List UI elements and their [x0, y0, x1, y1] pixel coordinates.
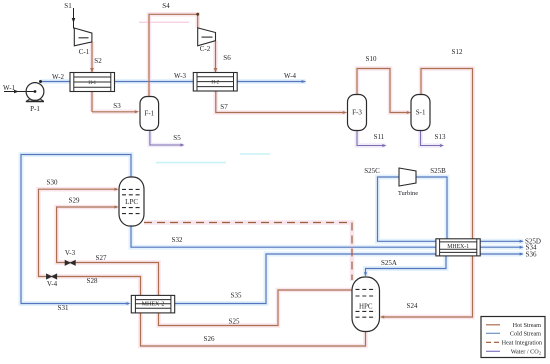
svg-text:S31: S31: [58, 304, 69, 312]
compressor C-2: [198, 28, 216, 46]
svg-text:S28: S28: [87, 277, 98, 285]
arrow W-4 right: [302, 80, 306, 83]
wire purple S11: [357, 131, 385, 146]
svg-text:S6: S6: [223, 54, 231, 62]
separator S-1: [411, 95, 430, 131]
legend water swatch: [486, 350, 500, 352]
svg-text:V-3: V-3: [65, 249, 76, 257]
arrow S29 into LPC: [114, 206, 118, 209]
svg-text:MHEX-2: MHEX-2: [142, 302, 165, 308]
svg-text:C-2: C-2: [200, 45, 211, 53]
arrow S3 into F-1: [135, 110, 139, 113]
heat exchanger H-1: [70, 73, 115, 92]
arrow S24 into HPC: [380, 316, 384, 319]
arrow S7 into F-3: [343, 111, 347, 114]
legend hot stream swatch: [486, 324, 500, 326]
wire hot: S2 S3: [92, 42, 137, 112]
svg-text:S-1: S-1: [416, 109, 426, 117]
wire hot: S6 S7: [216, 41, 346, 113]
wire cold: LPC top to S31 into MHEX-2: [21, 155, 131, 304]
wire halo S25D S34 S36: [480, 241, 523, 254]
wire S1 feed (black): [73, 8, 75, 29]
wire halo S10: [357, 69, 410, 113]
heat exchanger H-2: [193, 73, 237, 92]
wire halo S35: [175, 254, 436, 304]
svg-text:W-4: W-4: [284, 72, 297, 80]
svg-text:Water / CO2: Water / CO2: [511, 349, 541, 356]
svg-text:V-4: V-4: [47, 280, 58, 288]
svg-text:Heat Integration: Heat Integration: [502, 340, 542, 347]
arrow S2 into H-1: [90, 68, 94, 73]
svg-text:P-1: P-1: [30, 105, 40, 113]
svg-text:S10: S10: [366, 55, 377, 63]
wire halo LPC-bottom to MHEX-1: [131, 226, 436, 247]
svg-text:W-1: W-1: [3, 84, 16, 92]
wire cold: S25D S34 S36 outlets: [480, 241, 523, 254]
svg-text:S36: S36: [526, 250, 537, 258]
arrow S5: [180, 144, 184, 147]
arrow S30 into LPC: [114, 188, 118, 191]
svg-text:S35: S35: [231, 292, 242, 300]
svg-text:S25C: S25C: [364, 167, 380, 175]
wire cold: LPC bottom to MHEX-1: [131, 226, 436, 247]
arrow S1 down: [72, 18, 76, 23]
svg-text:S24: S24: [407, 302, 418, 310]
svg-text:S25: S25: [229, 318, 240, 326]
svg-text:S26: S26: [204, 335, 215, 343]
svg-text:Hot Stream: Hot Stream: [513, 322, 542, 329]
arrow S25A down into HPC: [364, 272, 367, 276]
legend heat integration swatch: [486, 341, 500, 343]
flash drum F-1: [140, 97, 159, 131]
legend cold stream swatch: [486, 332, 500, 334]
wire halo W line: [41, 79, 306, 84]
wire halo S12 S24: [381, 69, 473, 318]
wire heat integration S32 dashed: [144, 223, 352, 281]
svg-text:S5: S5: [173, 134, 181, 142]
arrow S13: [440, 144, 444, 147]
wire halo S25 S27 S29: [57, 207, 352, 326]
wire halo S2 S3: [92, 42, 138, 112]
svg-text:W-3: W-3: [174, 72, 187, 80]
svg-text:C-1: C-1: [79, 48, 90, 56]
arrow S34: [520, 246, 524, 249]
pump P-1: [26, 80, 44, 101]
arrow S36: [520, 253, 524, 256]
svg-text:S3: S3: [113, 102, 121, 110]
wire cold: S25C turbine S25B: [378, 177, 448, 245]
compressor C-1: [74, 28, 92, 46]
svg-text:S11: S11: [374, 133, 385, 141]
wire halo LPC-top loop / S31: [21, 155, 131, 304]
svg-text:S13: S13: [435, 133, 446, 141]
heat exchanger MHEX-1: [436, 239, 480, 256]
svg-text:F-3: F-3: [352, 109, 362, 117]
wire hot: HPC bottom S26 to MHEX-2 to V-4 S30 LPC: [39, 189, 366, 346]
svg-text:H-2: H-2: [211, 81, 219, 86]
svg-text:Turbine: Turbine: [398, 190, 418, 197]
wire hot: S4: [149, 14, 198, 96]
svg-text:S27: S27: [96, 254, 107, 262]
valve V-3: [65, 260, 75, 265]
svg-text:HPC: HPC: [359, 303, 373, 311]
heat exchanger MHEX-2: [131, 295, 174, 313]
svg-text:S1: S1: [64, 2, 72, 10]
svg-text:F-1: F-1: [144, 110, 154, 118]
artifact pink segment: [139, 21, 189, 23]
svg-text:S30: S30: [47, 179, 58, 187]
legend box: [481, 317, 545, 358]
wire hot: S10: [357, 69, 409, 113]
column HPC: [352, 277, 380, 332]
wire halo S26 S28 S30: [39, 189, 366, 346]
artifact cyan segment A: [156, 162, 226, 164]
svg-text:S2: S2: [94, 57, 102, 65]
svg-text:W-2: W-2: [52, 73, 65, 81]
flash drum F-3: [348, 95, 367, 131]
wire purple S5: [150, 130, 183, 145]
node S4 corner junction: [196, 13, 199, 16]
svg-text:S32: S32: [172, 236, 183, 244]
svg-text:S25A: S25A: [381, 259, 397, 267]
svg-text:MHEX-1: MHEX-1: [447, 244, 469, 250]
svg-text:S25B: S25B: [430, 167, 446, 175]
svg-text:S12: S12: [452, 48, 463, 56]
artifact cyan segment B: [240, 153, 270, 155]
wire halo S5 S11 S13: [150, 130, 443, 145]
arrow S25D: [520, 240, 524, 243]
wire halo S32: [144, 223, 352, 282]
wire halo turbine loop S25C S25B: [378, 177, 448, 245]
valve V-4: [46, 274, 56, 279]
arrow S6 into H-2: [214, 68, 218, 73]
svg-text:S29: S29: [69, 197, 80, 205]
column LPC: [119, 177, 144, 226]
faint jpeg artifact lines: [139, 22, 270, 162]
arrow W-1 right: [14, 90, 19, 94]
arrow S31 into MHEX-2: [126, 302, 130, 305]
svg-text:S4: S4: [162, 2, 170, 10]
turbine: [399, 168, 416, 186]
wire halo S6 S7: [216, 41, 346, 113]
wire W-2 W-3 W-4 cold water line: [41, 81, 306, 83]
wire halo S25A: [366, 250, 447, 276]
svg-text:S7: S7: [220, 103, 228, 111]
wire cold: S25A to HPC: [366, 250, 447, 276]
wire W-1 feed (black): [4, 91, 35, 93]
arrow S11: [382, 144, 386, 147]
wire purple S13: [421, 131, 443, 146]
wire halo S4: [149, 14, 198, 96]
svg-text:LPC: LPC: [125, 198, 138, 206]
wire hot: S12 S24: [382, 69, 473, 318]
wire cold: S35 MHEX-2 to MHEX-1: [175, 254, 436, 304]
svg-text:H-1: H-1: [88, 81, 96, 86]
svg-text:Cold Stream: Cold Stream: [510, 331, 541, 338]
arrow S10 into S-1: [407, 111, 411, 114]
wire hot: HPC side to MHEX-2 to V-3 S29 LPC: [57, 207, 352, 326]
